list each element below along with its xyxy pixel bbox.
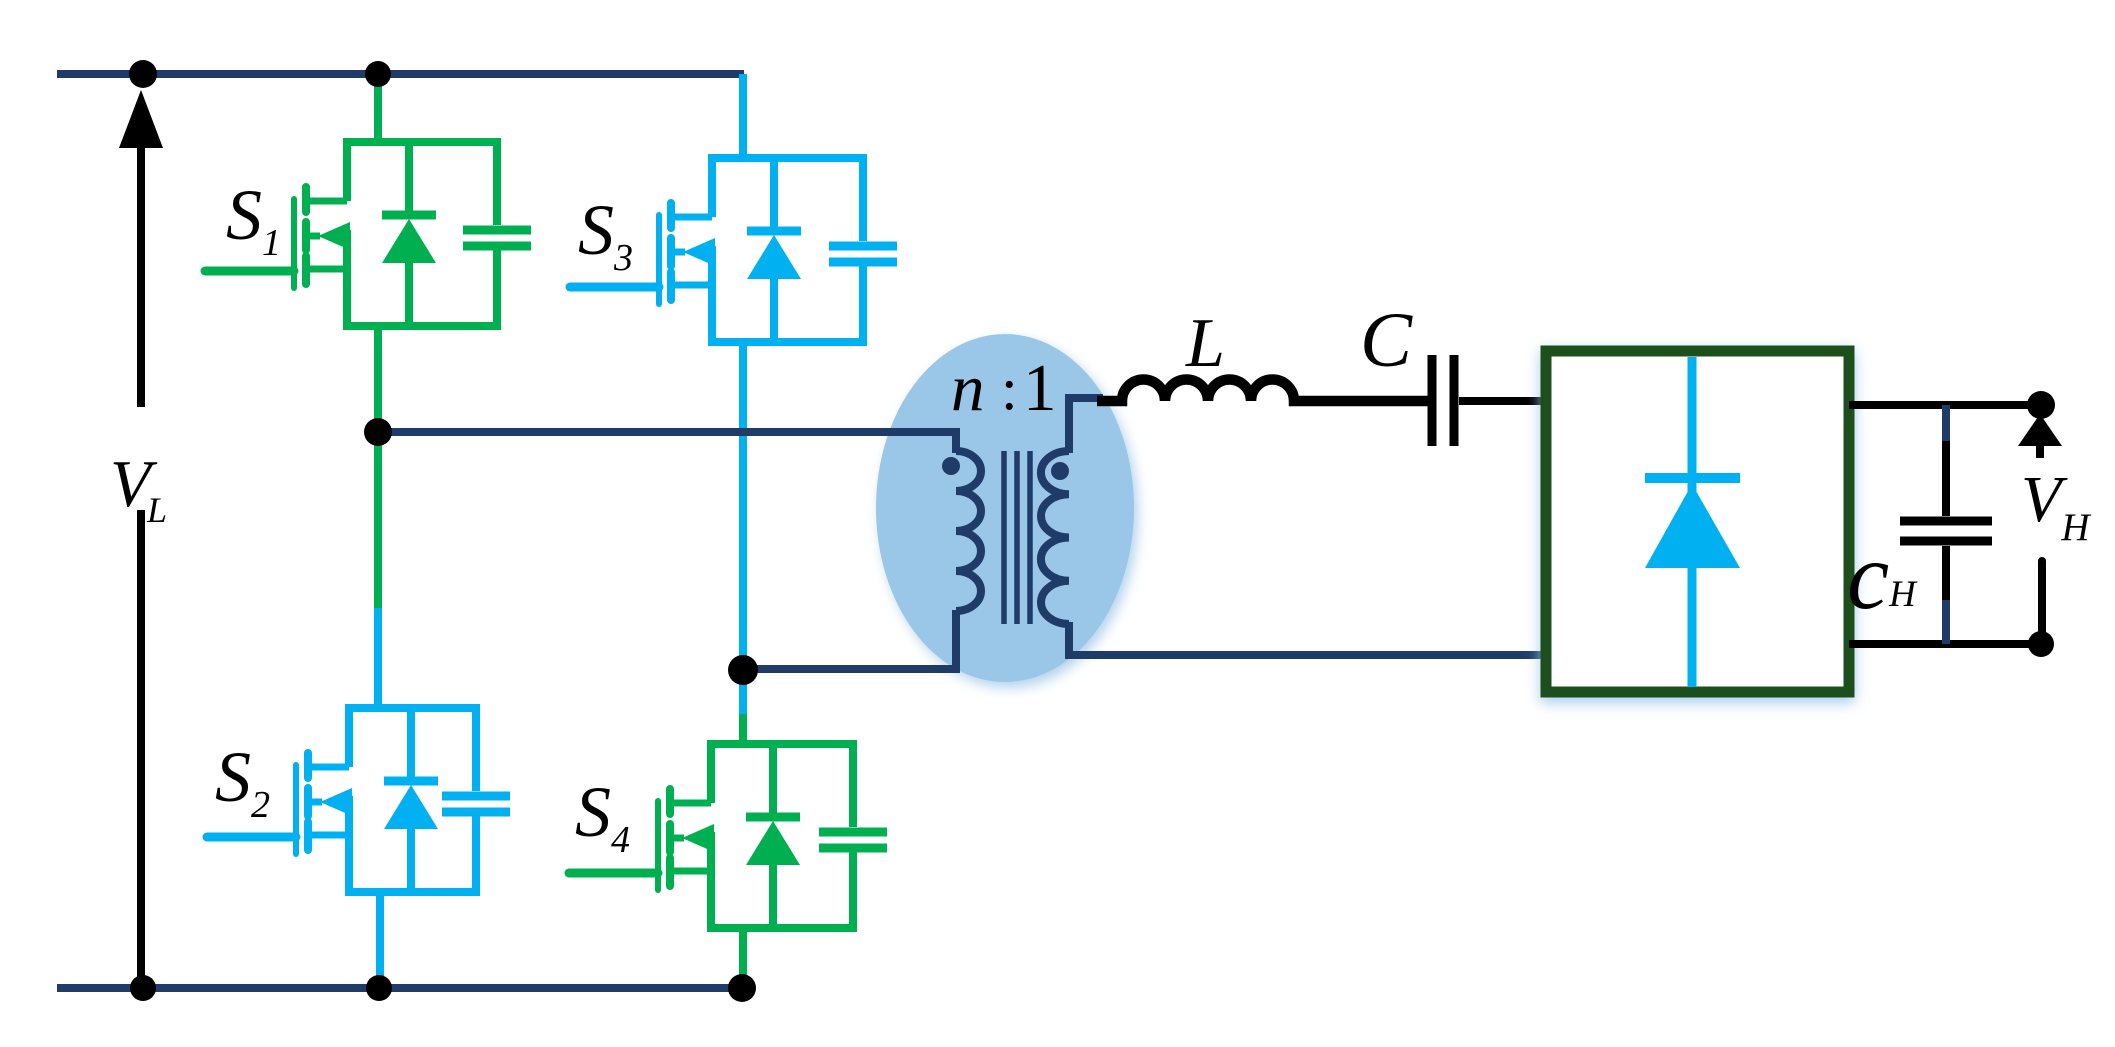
wire: phase leg green segment to S4: [739, 714, 747, 748]
node dot output minus: [2028, 631, 2054, 657]
body diode of S1: [382, 142, 436, 326]
node dot output plus: [2027, 391, 2055, 419]
capacitor cH leads: [1942, 405, 1950, 441]
switch S1 cell box: [343, 142, 501, 326]
junction node dot 2: [365, 61, 391, 87]
voltage source arrow VL: [119, 90, 163, 988]
wire: S1 top pin: [374, 74, 382, 146]
switch S3 cell box: [708, 158, 867, 342]
MOSFET S1: [205, 187, 350, 288]
svg-text:VH: VH: [2021, 463, 2091, 549]
junction node dot 7: [728, 655, 758, 685]
wire: transformer secondary bottom lead to rectifier: [1069, 622, 1546, 655]
svg-text:n: n: [951, 351, 985, 425]
wire: rectifier bottom output: [1849, 640, 2041, 648]
junction node dot 4: [366, 975, 392, 1001]
rectifier block U1: [1546, 351, 1849, 692]
switch S4 cell box: [707, 744, 857, 928]
switch S2 cell box: [345, 708, 480, 892]
transformer primary polarity dot: [942, 457, 960, 475]
svg-text::: :: [1001, 356, 1018, 422]
snubber capacitor of S1: [463, 230, 531, 246]
wire: transformer secondary top lead: [1069, 398, 1103, 453]
wire: S4 bottom pin: [739, 927, 747, 988]
transformer secondary polarity dot: [1051, 462, 1069, 480]
body diode of S3: [747, 158, 801, 342]
wire: S2 bottom pin: [376, 888, 384, 988]
MOSFET S2: [207, 753, 352, 854]
wire: phase leg cyan segment to S2: [374, 608, 382, 712]
svg-text:S4: S4: [575, 772, 630, 861]
rectifier diode: [1645, 357, 1740, 687]
svg-text:1: 1: [1023, 351, 1057, 425]
wire: phase leg cyan segment below midpoint B: [739, 668, 747, 714]
snubber capacitor of S4: [819, 832, 887, 848]
wire: S3 top pin: [739, 74, 747, 162]
svg-text:L: L: [146, 490, 167, 530]
transformer T1 primary winding: [956, 451, 981, 611]
wire: S1 bottom pin to midpoint A: [374, 322, 382, 436]
junction node dot 5: [728, 974, 756, 1002]
wire: phase leg green segment below midpoint A: [374, 432, 382, 608]
wire: midpoint B to transformer primary bottom: [743, 610, 956, 669]
wire: top DC rail: [57, 70, 744, 78]
body diode of S2: [384, 708, 438, 892]
MOSFET S4: [569, 789, 714, 890]
wire: bottom DC rail: [57, 984, 744, 992]
wire: rectifier top output: [1849, 401, 2041, 409]
junction node dot 1: [129, 60, 157, 88]
svg-text:S1: S1: [226, 175, 281, 264]
snubber capacitor of S2: [442, 796, 510, 812]
capacitor C: [1432, 355, 1454, 446]
junction node dot 3: [130, 975, 156, 1001]
inductor L: [1097, 380, 1428, 402]
voltage arrow VH: [2018, 414, 2062, 637]
body diode of S4: [746, 744, 800, 928]
junction node dot 6: [364, 418, 392, 446]
svg-text:C: C: [1360, 296, 1413, 383]
transformer T1 secondary winding: [1041, 451, 1069, 624]
transformer highlight ellipse: [876, 334, 1134, 682]
svg-text:L: L: [1185, 305, 1225, 382]
transformer T1 core: [1004, 451, 1030, 624]
wire: midpoint A to transformer primary top: [378, 432, 956, 453]
wire: S3 bottom pin to midpoint B: [739, 338, 747, 674]
snubber capacitor of S3: [829, 246, 897, 262]
capacitor cH plates: [1900, 521, 1992, 541]
svg-text:S3: S3: [578, 190, 633, 279]
MOSFET S3: [570, 203, 715, 304]
svg-text:S2: S2: [215, 737, 270, 826]
